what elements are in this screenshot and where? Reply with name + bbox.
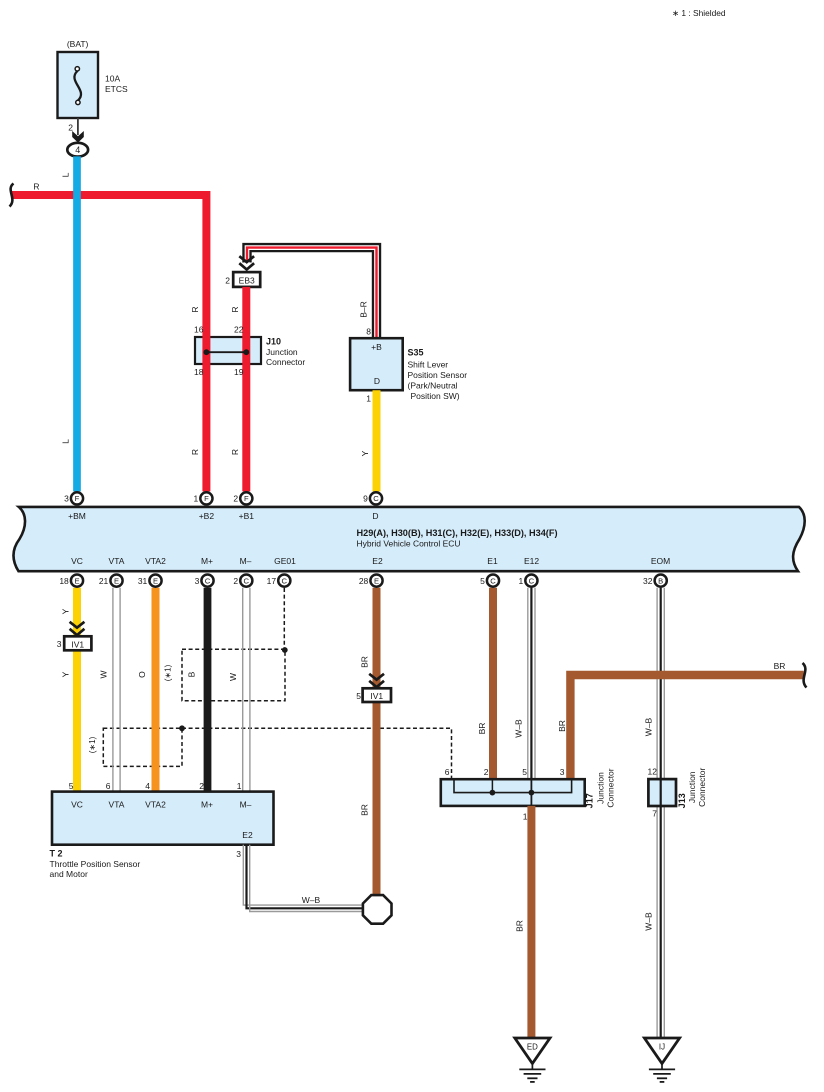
continuation squiggle right [803,663,807,688]
svg-text:EB3: EB3 [239,275,255,285]
svg-text:VTA2: VTA2 [145,800,166,810]
svg-text:18: 18 [194,367,204,377]
svg-text:Hybrid Vehicle Control ECU: Hybrid Vehicle Control ECU [357,539,461,549]
svg-text:ED: ED [527,1043,538,1052]
svg-text:6: 6 [445,767,450,777]
svg-text:B: B [658,576,663,585]
svg-text:7: 7 [652,809,657,819]
connector arrow into IV1 (E2) [369,674,384,680]
svg-text:R: R [33,182,39,192]
wire Y from VC [73,588,81,792]
shield box around M+ and M- wires [182,649,285,701]
svg-text:Junction: Junction [266,347,298,357]
svg-text:31: 31 [138,576,148,586]
svg-text:+B2: +B2 [199,511,215,521]
junction connector J17 box [441,779,585,806]
svg-text:10A: 10A [105,74,120,84]
svg-text:BR: BR [359,656,369,668]
svg-text:O: O [137,671,147,678]
wire O from VTA2 [152,588,160,792]
svg-text:VTA: VTA [109,556,125,566]
svg-text:F: F [244,494,249,503]
svg-text:Y: Y [360,450,370,456]
J10 internal bus [204,349,250,355]
svg-text:+B1: +B1 [239,511,255,521]
svg-text:1: 1 [523,812,528,822]
svg-text:T 2: T 2 [50,848,63,858]
ECU pin 2(F) +B1 [240,492,252,504]
svg-text:(∗1): (∗1) [88,736,97,753]
svg-text:9: 9 [363,494,368,504]
svg-text:BR: BR [774,661,786,671]
svg-text:3: 3 [57,639,62,649]
wire W from VTA [112,588,114,792]
svg-text:∗ 1 : Shielded: ∗ 1 : Shielded [672,8,726,18]
svg-text:IV1: IV1 [370,691,383,701]
svg-text:E1: E1 [487,556,498,566]
svg-text:2: 2 [233,494,238,504]
fuse ETCS 10A (BAT) [58,39,129,118]
svg-text:D: D [372,511,378,521]
svg-text:3: 3 [195,576,200,586]
svg-text:Shift Lever: Shift Lever [408,359,449,369]
svg-text:BR: BR [477,723,487,735]
junction connector J10 box [195,337,261,364]
svg-text:3: 3 [64,494,69,504]
svg-text:H29(A), H30(B), H31(C), H32(E): H29(A), H30(B), H31(C), H32(E), H33(D), … [357,528,558,538]
svg-text:Y: Y [61,608,71,614]
svg-text:M+: M+ [201,800,213,810]
J17 pin labels 6 2 5 3 [445,767,565,777]
ECU pin 9(C) D [370,492,382,504]
svg-text:F: F [75,494,80,503]
svg-text:5: 5 [69,781,74,791]
S35 labels [408,348,468,401]
svg-text:B: B [186,671,196,677]
svg-text:E: E [74,576,79,585]
svg-text:8: 8 [366,327,371,337]
wire W-B from EOM through J13 to IJ ground [656,588,658,1038]
svg-text:W: W [98,670,108,678]
svg-text:ETCS: ETCS [105,84,128,94]
node 4 ellipse [67,143,88,157]
T2 pin labels 5 6 4 2 1 [69,781,242,791]
svg-text:R: R [190,449,200,455]
svg-text:6: 6 [106,781,111,791]
svg-text:E2: E2 [372,556,383,566]
ECU pin 32(B) EOM [655,575,667,587]
svg-text:R: R [190,306,200,312]
svg-text:E: E [114,576,119,585]
svg-text:1: 1 [237,781,242,791]
wire BR from E1 to J17 pin 2 [489,588,497,779]
svg-text:21: 21 [99,576,109,586]
shield dashed line from GE01 [283,588,285,650]
svg-text:M–: M– [240,556,252,566]
svg-text:BR: BR [359,804,369,816]
svg-text:IV1: IV1 [71,639,84,649]
svg-text:32: 32 [643,576,653,586]
svg-text:19: 19 [234,367,244,377]
wire R from EB3 to +B1 [242,287,250,492]
svg-text:28: 28 [359,576,369,586]
svg-text:Junction: Junction [595,772,605,804]
wire L blue from node 4 to +BM [73,156,81,491]
wire B-R shielded loop from EB3 to S35 +B [247,248,377,339]
svg-text:and Motor: and Motor [50,869,88,879]
svg-text:2: 2 [199,781,204,791]
svg-text:Throttle Position Sensor: Throttle Position Sensor [50,859,141,869]
svg-text:1: 1 [518,576,523,586]
J10 pin labels 16 22 18 19 [194,325,244,378]
svg-text:12: 12 [648,767,658,777]
wire W-B from T2 E2 to splice [243,845,363,912]
connector arrow into node 4 [72,131,84,143]
svg-text:2: 2 [233,576,238,586]
svg-text:Position SW): Position SW) [411,391,460,401]
svg-text:J17: J17 [584,793,594,808]
ground ED [515,1038,550,1064]
svg-text:+B: +B [371,342,382,352]
note: shielded legend [672,8,726,18]
connector arrow into IV1 (VC) [70,622,85,628]
svg-text:J13: J13 [677,793,687,808]
connector EB3 [233,272,260,287]
connector IV1 (VC) [64,636,91,650]
ECU pin 3(C) M+ [201,575,213,587]
svg-text:C: C [282,576,288,585]
wire from fuse pin 2 [77,118,79,135]
svg-text:5: 5 [356,691,361,701]
ECU pin 1(C) E12 [525,575,537,587]
ECU pin 31(E) VTA2 [149,575,161,587]
wire W from M- [242,588,244,792]
svg-text:M+: M+ [201,556,213,566]
svg-text:18: 18 [59,576,69,586]
ECU pin 5(C) E1 [487,575,499,587]
svg-text:C: C [529,576,535,585]
svg-text:16: 16 [194,325,204,335]
svg-text:C: C [244,576,250,585]
svg-text:Y: Y [61,671,71,677]
ECU top pin names [68,511,378,521]
shield box around VTA and VTA2 wires [103,728,182,766]
J17 internal bus [454,779,572,806]
shielded splice octagon [363,895,392,924]
svg-text:Connector: Connector [266,357,305,367]
continuation squiggle left [10,184,14,207]
svg-text:W–B: W–B [644,717,654,736]
svg-text:2: 2 [484,767,489,777]
svg-text:EOM: EOM [651,556,670,566]
svg-text:4: 4 [75,145,80,155]
svg-text:(BAT): (BAT) [67,39,89,49]
svg-text:VC: VC [71,800,83,810]
ECU bottom pin names [71,556,670,566]
svg-text:VC: VC [71,556,83,566]
svg-text:D: D [374,376,380,386]
svg-text:Connector: Connector [606,768,616,807]
shield dashed wire to J17 pin 6 [182,728,452,779]
ECU pin 21(E) VTA [110,575,122,587]
wire R horizontal from left (to +B2) [12,195,206,491]
ECU pin 1(F) +B2 [200,492,212,504]
svg-text:E: E [153,576,158,585]
shield junction dot [179,725,185,731]
component T2 Throttle Position Sensor and Motor [52,792,274,845]
svg-text:BR: BR [557,720,567,732]
shield junction dot at GE01 [282,647,288,653]
svg-text:3: 3 [236,849,241,859]
svg-text:L: L [61,172,71,177]
svg-text:IJ: IJ [659,1043,665,1052]
svg-text:F: F [204,494,209,503]
svg-text:+BM: +BM [68,511,86,521]
junction connector J13 box [648,779,676,806]
svg-text:5: 5 [480,576,485,586]
ground IJ [644,1038,679,1064]
svg-text:W: W [228,673,238,681]
svg-text:1: 1 [366,394,371,404]
svg-text:S35: S35 [408,348,424,358]
svg-text:R: R [230,306,240,312]
wire BR from J17 pin 1 to ED ground [527,806,535,1038]
svg-text:E12: E12 [524,556,539,566]
svg-text:2: 2 [68,123,73,133]
svg-text:C: C [373,494,379,503]
ECU pin 3(F) +BM [71,492,83,504]
T2 labels [50,848,141,879]
svg-text:L: L [61,439,71,444]
svg-text:VTA: VTA [109,800,125,810]
svg-text:C: C [205,576,211,585]
ECU pin 17(C) GE01 [278,575,290,587]
svg-text:1: 1 [193,494,198,504]
connector arrow into EB3 [239,256,254,262]
svg-text:(∗1): (∗1) [163,664,172,681]
svg-text:E2: E2 [242,830,253,840]
svg-text:GE01: GE01 [274,556,296,566]
ECU pin 28(E) E2 [370,575,382,587]
svg-text:C: C [490,576,496,585]
J13 labels [677,768,707,809]
J13 pin labels 12 7 [648,767,658,819]
wire Y from S35 D to ECU pin D [373,390,381,491]
wire BR from E2 [373,588,381,895]
svg-text:4: 4 [145,781,150,791]
sensor S35 Shift Lever Position Sensor [350,338,403,390]
svg-text:J10: J10 [266,337,281,347]
svg-text:Junction: Junction [687,771,697,803]
ECU pin 18(E) VC [71,575,83,587]
svg-text:W–B: W–B [644,912,654,931]
svg-text:22: 22 [234,325,244,335]
svg-text:W–B: W–B [514,719,524,738]
svg-text:M–: M– [240,800,252,810]
svg-text:17: 17 [267,576,277,586]
svg-text:Position Sensor: Position Sensor [408,370,468,380]
svg-text:5: 5 [522,767,527,777]
svg-text:E: E [374,576,379,585]
wire W-B from E12 to J17 pin 5 [527,588,529,779]
svg-text:(Park/Neutral: (Park/Neutral [408,380,458,390]
wire BR from right side to J17 pin 3 [570,675,803,779]
ECU pin 2(C) M- [240,575,252,587]
svg-text:B–R: B–R [359,301,369,318]
connector IV1 (E2) [363,688,391,702]
svg-text:R: R [230,449,240,455]
J17 labels [584,768,615,808]
svg-text:2: 2 [225,276,230,286]
svg-text:BR: BR [515,920,525,932]
svg-text:VTA2: VTA2 [145,556,166,566]
svg-text:3: 3 [560,767,565,777]
J10 labels [266,337,305,368]
ECU H29..H34 Hybrid Vehicle Control ECU band [14,507,805,571]
svg-text:W–B: W–B [302,895,321,905]
wire B from M+ [204,588,212,792]
svg-text:Connector: Connector [697,768,707,807]
